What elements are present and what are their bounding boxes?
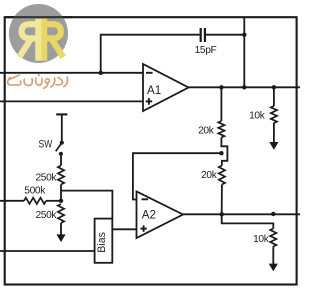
- wire capacitor to feedback column: [206, 34, 244, 36]
- switch SW: [60, 141, 64, 145]
- capacitor C1 15pF: [200, 28, 202, 42]
- bias block: [95, 219, 113, 263]
- resistor 20k upper: [220, 87, 222, 121]
- wire bias input from left edge: [0, 250, 95, 252]
- wire feedback column from top frame to output row: [243, 17, 245, 87]
- logo letters: [19, 19, 63, 61]
- op-amp A2: [137, 192, 184, 239]
- svg-text:15pF: 15pF: [195, 45, 217, 56]
- logo watermark circle: [9, 4, 68, 63]
- node 500k / 250k junction: [59, 199, 63, 203]
- svg-text:20k: 20k: [198, 126, 215, 137]
- svg-text:250k: 250k: [35, 210, 57, 221]
- wire jog between 20k resistors: [221, 138, 227, 166]
- wire bias to A2 non-inverting input: [112, 228, 136, 230]
- resistor 10k lower with ground arrow: [270, 229, 276, 247]
- op-amp A1: [143, 64, 189, 111]
- logo persian text: [8, 74, 68, 88]
- wire A1 non-inverting input from left edge: [0, 100, 143, 102]
- wire A2 feedback loop: [133, 153, 222, 199]
- node output/feedback column junction: [242, 85, 246, 89]
- node feedback / 20k midpoint: [219, 151, 223, 155]
- wire from output node down to lower 10k: [222, 214, 274, 228]
- node A2 output / 20k junction: [220, 212, 224, 216]
- resistor 500k from left edge: [0, 200, 24, 202]
- node on A2 output row: [271, 212, 275, 216]
- resistor 20k lower: [219, 166, 225, 185]
- switch SW terminal bar: [56, 113, 67, 115]
- svg-text:A1: A1: [147, 84, 161, 97]
- node output/10k junction: [272, 85, 276, 89]
- wire A1 inverting input from left edge: [0, 72, 143, 74]
- wire A1 output row to right edge: [189, 86, 301, 88]
- resistor 250k lower with ground arrow: [58, 204, 64, 223]
- svg-text:10k: 10k: [249, 110, 266, 121]
- svg-text:Bias: Bias: [96, 232, 108, 253]
- svg-text:SW: SW: [39, 138, 53, 150]
- node capacitor / feedback column junction: [242, 33, 246, 37]
- wire branch to bias box: [61, 191, 112, 219]
- svg-text:500k: 500k: [24, 185, 46, 196]
- resistor 250k upper: [60, 154, 62, 166]
- wire A2 output row to right edge: [183, 213, 300, 215]
- svg-text:A2: A2: [142, 208, 156, 221]
- node output/20k junction: [219, 85, 223, 89]
- frame segment over logo: [5, 16, 72, 18]
- node feedback junction on A1 inverting input: [99, 71, 103, 75]
- resistor 10k upper with ground arrow: [273, 87, 275, 106]
- svg-text:10k: 10k: [253, 234, 270, 245]
- svg-text:250k: 250k: [35, 172, 57, 183]
- wire feedback vertical up from inverting node: [101, 35, 200, 73]
- svg-text:20k: 20k: [201, 170, 218, 181]
